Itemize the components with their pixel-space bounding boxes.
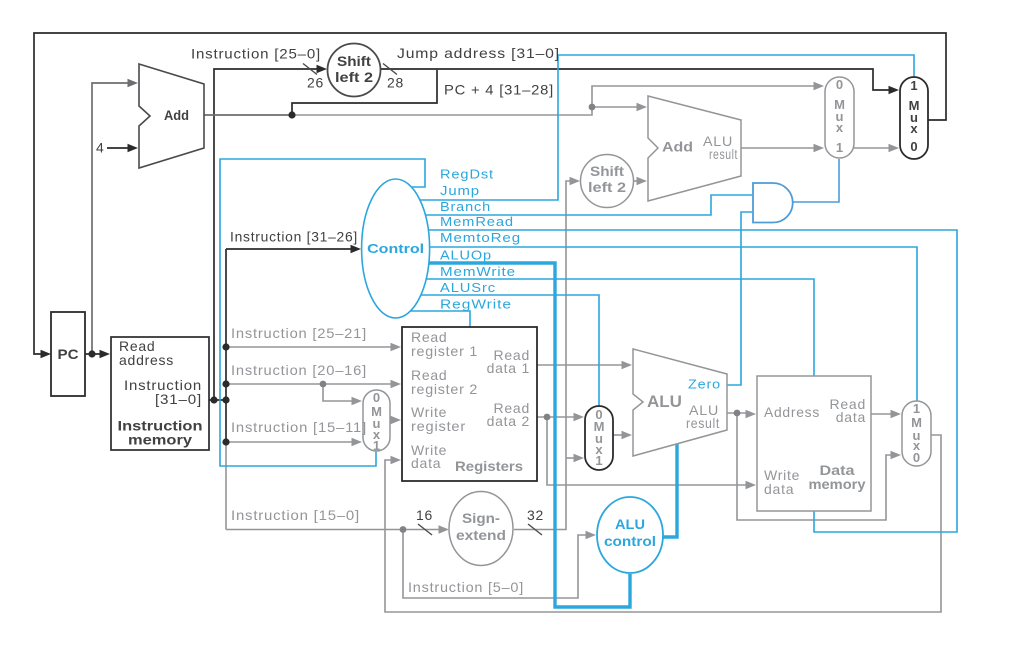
wire: PC+4 to branch adder and to branch mux 0 <box>292 86 817 115</box>
data memory <box>757 376 871 511</box>
arrow: into write data <box>391 456 402 464</box>
svg-text:1: 1 <box>913 401 920 416</box>
svg-text:Address: Address <box>764 404 820 420</box>
wire: ALUsrc mux output into ALU <box>613 434 626 436</box>
WIRES-DARKGRAY <box>92 83 292 354</box>
branch adder <box>648 96 741 201</box>
svg-text:left 2: left 2 <box>335 70 373 85</box>
svg-text:left 2: left 2 <box>588 180 626 195</box>
svg-text:Add: Add <box>662 139 693 155</box>
svg-text:4: 4 <box>96 140 105 156</box>
svg-text:0: 0 <box>913 450 920 465</box>
svg-text:PC: PC <box>58 346 79 362</box>
wire: MemtoReg to final mux select <box>408 247 917 401</box>
wire: AND gate output to branch mux select <box>792 159 839 202</box>
arrow: into read register 2 <box>391 380 402 388</box>
wire: branch mux output into jump mux input 0 <box>854 147 893 149</box>
svg-text:Shift: Shift <box>337 54 372 69</box>
svg-text:extend: extend <box>456 528 506 543</box>
wire: PC+4 into branch adder top input <box>592 106 641 108</box>
svg-text:address: address <box>119 352 174 368</box>
svg-text:data: data <box>411 455 441 471</box>
arrow: into PC <box>41 350 52 358</box>
arrow: into ALU control <box>586 531 597 539</box>
wire: sign-extend tap into ALUsrc mux input 1 <box>566 457 578 459</box>
svg-text:register 1: register 1 <box>411 343 478 359</box>
svg-text:Branch: Branch <box>440 200 491 214</box>
svg-text:x: x <box>836 120 844 135</box>
branch mux <box>825 77 854 158</box>
wire: final mux output along bottom back to write data <box>385 435 941 612</box>
wire: RegWrite to registers <box>408 311 470 327</box>
wire: read data 2 branch to data memory write data <box>547 417 750 485</box>
wire: instruction [15-11] into write-reg mux input 1 <box>226 441 356 443</box>
svg-text:ALU: ALU <box>615 517 645 532</box>
node: PC+4 junction <box>288 111 295 118</box>
wire: instruction [20-16] branch into write-reg mux input 0 <box>323 384 356 401</box>
arrow: PC+4 into branch adder <box>637 103 648 111</box>
wire: Add output to PC+4 junction <box>204 114 292 116</box>
wire: jump address from shift left 2 to jump mux input 1 <box>381 69 893 90</box>
svg-text:Instruction [25–0]: Instruction [25–0] <box>191 46 321 62</box>
arrow: mux into write register <box>391 416 402 424</box>
node: instruction 15-0 junction <box>400 526 407 533</box>
sign extend <box>449 492 513 566</box>
arrow: ALU result into address <box>746 410 757 418</box>
node: PC+4 branch junction <box>589 104 596 111</box>
final mux (mem-to-reg) <box>902 401 931 466</box>
svg-text:Instruction [31–26]: Instruction [31–26] <box>230 229 358 245</box>
wire: sign-extend output up to branch shift left 2 <box>514 181 573 530</box>
svg-text:1: 1 <box>373 438 380 453</box>
PC register <box>51 312 85 396</box>
svg-text:0: 0 <box>910 139 917 154</box>
svg-text:[31–0]: [31–0] <box>155 391 202 407</box>
svg-text:MemRead: MemRead <box>440 215 514 229</box>
svg-text:MemWrite: MemWrite <box>440 265 516 279</box>
svg-text:1: 1 <box>595 453 602 468</box>
svg-text:memory: memory <box>809 477 867 492</box>
svg-text:ALU: ALU <box>647 392 682 411</box>
svg-text:Instruction [25–21]: Instruction [25–21] <box>231 325 367 341</box>
instruction memory <box>111 337 209 450</box>
node: instruction 20-16 mux tap <box>320 381 327 388</box>
svg-text:RegDst: RegDst <box>440 168 494 182</box>
write-reg mux <box>363 390 390 453</box>
wire: Zero output up to AND gate <box>727 212 752 385</box>
control unit oval <box>362 179 430 318</box>
WIRES-GRAY <box>226 86 941 612</box>
AND gate <box>753 183 793 223</box>
wire: read data 2 to ALUsrc mux input 0 <box>537 416 578 418</box>
arrow: into write-reg mux 1 <box>352 438 363 446</box>
wire: read data 1 to ALU input <box>537 364 626 366</box>
slash: 32-bit bus <box>528 524 542 535</box>
svg-text:data 1: data 1 <box>487 360 530 376</box>
wire: instruction memory output stub <box>209 399 226 401</box>
svg-text:Instruction [15–0]: Instruction [15–0] <box>231 507 360 523</box>
svg-text:MemtoReg: MemtoReg <box>440 231 521 245</box>
svg-text:ALUOp: ALUOp <box>440 249 492 263</box>
arrow: PC+4 into branch mux <box>814 82 825 90</box>
svg-text:register: register <box>411 418 466 434</box>
svg-text:Data: Data <box>820 463 856 478</box>
arrow: branch adder into branch mux 1 <box>814 144 825 152</box>
wire: MemWrite to data memory top <box>408 279 814 376</box>
arrow: read data into final mux 1 <box>891 410 902 418</box>
svg-text:Registers: Registers <box>455 458 523 474</box>
arrow: branch mux into jump mux 0 <box>889 144 900 152</box>
svg-text:ALUSrc: ALUSrc <box>440 281 496 295</box>
svg-text:Instruction [20–16]: Instruction [20–16] <box>231 362 367 378</box>
svg-text:Shift: Shift <box>590 164 625 179</box>
wire: PC+4 [31-28] tap joining jump address <box>292 70 437 115</box>
node: read data 2 junction <box>544 414 551 421</box>
svg-text:RegWrite: RegWrite <box>440 298 512 312</box>
arrow: into write-reg mux 0 <box>352 397 363 405</box>
node: ALU result junction <box>734 410 741 417</box>
arrow: into sign-extend <box>439 525 450 533</box>
svg-text:Jump: Jump <box>440 184 480 198</box>
node: instruction 25-21 tap <box>222 343 229 350</box>
ALUsrc mux <box>585 406 613 470</box>
wire: ALU result to data memory address <box>727 412 750 414</box>
svg-text:data: data <box>764 481 794 497</box>
wire: instruction [25-0] from instruction memory up to shift left 2 <box>214 69 320 400</box>
wire: instruction [15-0] to sign-extend <box>226 529 442 531</box>
ARROWHEADS <box>41 65 902 539</box>
wire: ALUSrc to ALUsrc mux select <box>408 295 599 406</box>
arrow: 4 into Add <box>128 144 139 152</box>
wire: instruction [25-21] to read register 1 <box>226 346 395 348</box>
wire: instruction trunk vertical <box>225 249 227 442</box>
slash: 16-bit bus <box>418 524 432 535</box>
arrow: into read address <box>100 350 111 358</box>
arrow: into shift left 2 <box>317 65 328 73</box>
node: instruction 20-16 tap <box>222 380 229 387</box>
arrow: into ALUsrc mux 0 <box>574 413 585 421</box>
wire: PC output up and right into Add <box>92 83 132 354</box>
wire: constant 4 into Add <box>107 147 132 149</box>
svg-text:result: result <box>709 146 738 162</box>
svg-text:Zero: Zero <box>688 378 721 392</box>
svg-text:0: 0 <box>836 77 843 92</box>
svg-text:control: control <box>604 534 656 549</box>
svg-text:0: 0 <box>373 390 380 405</box>
arrow: PC into Add <box>128 79 139 87</box>
slash: 28-bit bus <box>383 64 397 75</box>
svg-text:PC + 4 [31–28]: PC + 4 [31–28] <box>444 82 554 98</box>
arrow: into branch shift left 2 <box>570 177 581 185</box>
svg-text:1: 1 <box>910 78 917 93</box>
svg-text:Instruction: Instruction <box>118 419 203 434</box>
WIRES-BLACK <box>34 33 946 442</box>
wire: branch adder result into branch mux input 1 <box>741 147 818 149</box>
svg-text:data: data <box>836 409 866 425</box>
wire: PC to instruction memory read address <box>85 353 103 355</box>
ALU main <box>633 349 727 456</box>
arrow: read data 1 into ALU <box>622 361 633 369</box>
svg-text:Sign-: Sign- <box>462 511 500 526</box>
node: PC output junction <box>88 350 95 357</box>
WIRES-BLUE-THICK <box>408 263 677 607</box>
svg-text:Control: Control <box>367 241 424 256</box>
arrow: ALUsrc mux into ALU <box>622 431 633 439</box>
svg-text:32: 32 <box>527 507 544 523</box>
arrow: ALU result into final mux 0 <box>891 451 902 459</box>
arrow: into ALUsrc mux 1 <box>574 454 585 462</box>
node: instruction 15-11 tap <box>222 438 229 445</box>
wire: jump mux output feedback to PC <box>34 33 946 354</box>
jump mux <box>900 77 928 159</box>
slash: 26-bit bus <box>303 64 317 75</box>
arrow: instruction 31-26 into control <box>351 245 362 253</box>
wire: data memory read data to final mux input 1 <box>871 413 892 415</box>
wire: instruction [31-26] into Control <box>226 248 354 250</box>
wire: Branch to AND gate <box>408 195 752 215</box>
svg-text:result: result <box>686 415 720 431</box>
arrow: shift into branch adder <box>637 177 648 185</box>
WIRES-STEEL <box>792 159 839 202</box>
ALU control oval <box>597 497 663 573</box>
svg-text:26: 26 <box>307 75 324 91</box>
wire: ALUOp thick to ALU control <box>408 263 630 607</box>
wire: instruction [20-16] to read register 2 <box>226 383 395 385</box>
adder Add (PC+4) <box>139 64 204 168</box>
registers file <box>402 327 537 481</box>
svg-text:28: 28 <box>387 75 404 91</box>
svg-text:data 2: data 2 <box>487 413 530 429</box>
wire: branch shift left 2 output into branch adder <box>633 180 641 182</box>
wire: write-reg mux output into write register <box>390 419 395 421</box>
wire: MemRead around right to data memory bottom <box>408 230 957 532</box>
svg-text:memory: memory <box>128 433 193 448</box>
shift left 2 (jump) <box>328 44 381 97</box>
arrow: jump address into jump mux <box>889 86 900 94</box>
branch shift left 2 <box>581 155 634 208</box>
svg-text:x: x <box>910 121 918 136</box>
svg-text:Instruction [5–0]: Instruction [5–0] <box>408 579 524 595</box>
WIRES-BLUE <box>220 55 957 532</box>
svg-text:Add: Add <box>164 107 189 123</box>
svg-text:16: 16 <box>416 507 433 523</box>
wire: instruction [5-0] to ALU control <box>403 530 589 599</box>
arrow: into data memory write data <box>746 481 757 489</box>
arrow: into read register 1 <box>391 343 402 351</box>
BUS SLASHES <box>303 64 542 536</box>
svg-text:Instruction [15–11]: Instruction [15–11] <box>231 419 367 435</box>
node: instruction output junction b <box>222 396 229 403</box>
wire: instruction trunk gray lower part <box>225 442 227 530</box>
node: instruction output junction a <box>210 396 217 403</box>
wire: ALU result down to final mux input 0 <box>737 413 895 520</box>
svg-text:Jump address [31–0]: Jump address [31–0] <box>397 45 560 61</box>
wire: ALU control output thick to ALU <box>658 444 677 537</box>
wire: Jump to jump mux select <box>406 55 914 200</box>
svg-text:register 2: register 2 <box>411 381 478 397</box>
svg-text:1: 1 <box>836 140 843 155</box>
wire: RegDst around left to write-reg mux select <box>220 159 425 466</box>
